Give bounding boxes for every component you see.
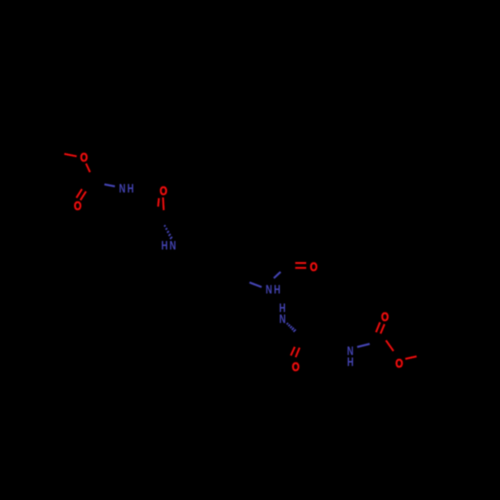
wire bond O7-C(CH3)3 red half bbox=[405, 356, 416, 359]
wire bond C-O7 red half bbox=[386, 340, 394, 351]
svg-text:NH: NH bbox=[266, 285, 282, 297]
wire bond O1-C red half bbox=[86, 164, 90, 173]
wire bond N3-C2 blue half bbox=[274, 272, 281, 278]
wire bond C7a-N3 blue half, indoline bbox=[250, 282, 262, 287]
wire bond N5-C blue half, right Boc bbox=[357, 344, 370, 347]
svg-text:NH: NH bbox=[119, 183, 135, 195]
svg-text:O: O bbox=[395, 358, 403, 371]
double bond C=O5 red halves, second amide bbox=[291, 347, 295, 356]
hashed wedge bond N4-C blue dashes bbox=[287, 323, 296, 332]
svg-text:N: N bbox=[279, 314, 286, 326]
svg-text:H: H bbox=[347, 357, 354, 369]
double bond C=O6 red halves right Boc bbox=[376, 322, 380, 332]
wire bond CH3-O1 red half, left Boc bbox=[64, 154, 76, 156]
double bond C2=O4 red halves, oxindole carbonyl bbox=[295, 262, 306, 264]
wire bond C-N1 blue half bbox=[104, 184, 115, 186]
double bond C=O3 red halves, first amide bbox=[162, 197, 165, 210]
svg-text:O: O bbox=[310, 261, 318, 274]
svg-text:HN: HN bbox=[161, 241, 177, 253]
double bond C=O2 red halves left Boc bbox=[76, 189, 82, 198]
svg-text:O: O bbox=[80, 152, 88, 165]
svg-text:O: O bbox=[74, 200, 82, 213]
svg-text:O: O bbox=[160, 185, 168, 198]
svg-text:O: O bbox=[381, 311, 389, 324]
svg-text:O: O bbox=[292, 361, 300, 374]
hashed wedge bond C-N2 blue dashes bbox=[164, 225, 172, 239]
